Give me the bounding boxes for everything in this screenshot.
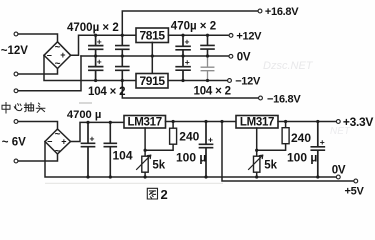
junction R1 / U3 ADJ — [144, 149, 147, 152]
potentiometer RP1 5k — [137, 155, 151, 177]
junction C7-C8 / 0V rail — [206, 54, 209, 57]
wire AC1 to bridge B1 top vertex — [19, 34, 58, 42]
terminal AC2 (upper transformer end B) — [14, 72, 18, 76]
bridge rectifier B2 — [45, 129, 71, 157]
wire AC3 to bridge B2 top vertex — [19, 122, 58, 130]
junction C5 / +12V rail — [181, 34, 184, 37]
junction RP2 / 0V rail — [255, 175, 258, 178]
junction C12 / 0V rail — [316, 175, 319, 178]
capacitor C3 104 (top) — [116, 35, 129, 56]
svg-text:+: + — [60, 50, 65, 60]
capacitor C5 470u (top) — [176, 35, 190, 56]
junction C5-C6 / 0V rail — [181, 54, 184, 57]
terminal CT (center tap) — [14, 89, 18, 93]
junction +5V tap / U3 output rail — [220, 120, 223, 123]
terminal AC3 (lower transformer end A) — [14, 120, 18, 124]
wire -12V rail — [168, 80, 226, 82]
wire LM317#2 output rail — [278, 121, 336, 123]
wire bridge B2 minus to 0V common rail — [45, 142, 336, 178]
svg-text:~: ~ — [55, 129, 61, 140]
junction C2 / -V rail — [94, 79, 97, 82]
wire bridge B2 plus to LM317 input rail — [71, 122, 125, 141]
regulator U2 7915 — [136, 74, 168, 89]
junction C9 / input rail — [86, 121, 89, 124]
junction regulators GND / 0V rail — [151, 54, 154, 57]
svg-text:470µ × 2: 470µ × 2 — [171, 21, 216, 33]
svg-text:7915: 7915 — [140, 74, 166, 88]
svg-text:Dzsc.NET: Dzsc.NET — [263, 60, 314, 72]
regulator U1 7815 — [136, 28, 168, 43]
potentiometer RP2 5k — [249, 155, 263, 177]
svg-text:NET: NET — [330, 126, 351, 137]
junction R2 / U4 output rail — [284, 120, 287, 123]
wire +12V rail — [168, 34, 228, 36]
terminal AC1 (upper transformer end A) — [14, 32, 18, 36]
wire AC4 to bridge B2 bottom vertex — [19, 154, 58, 161]
capacitor C4 104 (bottom) — [116, 56, 129, 81]
svg-text:104 × 2: 104 × 2 — [88, 86, 125, 98]
label 中心抽头 (center tap) — [2, 103, 45, 114]
svg-text:0V: 0V — [237, 52, 251, 64]
capacitor C11 100u — [200, 122, 214, 178]
svg-text:5k: 5k — [264, 160, 277, 172]
terminal 0V (lower) — [336, 175, 340, 179]
capacitor C9 4700u — [82, 122, 95, 177]
terminal AC4 (lower transformer end B) — [14, 159, 18, 163]
resistor R2 240 — [257, 122, 289, 151]
svg-text:LM317: LM317 — [240, 117, 274, 129]
svg-text:4700µ × 2: 4700µ × 2 — [67, 22, 119, 34]
svg-text:+: + — [97, 36, 102, 46]
svg-text:−: − — [47, 50, 52, 60]
svg-text:+16.8V: +16.8V — [265, 6, 299, 18]
wire LM317#1 output rail — [166, 121, 237, 123]
svg-text:0V: 0V — [332, 164, 346, 176]
junction C12 / U4 output rail — [316, 120, 319, 123]
junction C7 / +12V rail — [206, 34, 209, 37]
svg-text:+: + — [185, 37, 190, 47]
svg-text:+: + — [61, 137, 66, 147]
terminal +12V — [229, 34, 233, 38]
svg-text:+: + — [90, 134, 95, 144]
label 图2 (figure 2) — [147, 188, 157, 199]
junction C3 / +V rail (+16.8V tap) — [121, 34, 124, 37]
wire CT riser to 0V rail — [19, 56, 82, 91]
regulator U4 LM317 — [236, 116, 278, 129]
junction RP1 / 0V rail — [144, 175, 147, 178]
capacitor C12 100u — [311, 122, 325, 178]
terminal -16.8V — [259, 96, 263, 100]
svg-text:+: + — [97, 56, 102, 66]
junction C1 / +V rail — [94, 34, 97, 37]
wire LM317#1 ADJ — [144, 128, 146, 156]
svg-text:+: + — [185, 57, 190, 67]
node 0V rail — [81, 55, 228, 57]
svg-text:−12V: −12V — [235, 76, 261, 88]
terminal +3.3V — [336, 120, 340, 124]
svg-text:100 µ: 100 µ — [176, 151, 206, 165]
terminal +16.8V — [258, 9, 262, 13]
svg-text:7815: 7815 — [140, 28, 166, 42]
svg-text:4700 µ: 4700 µ — [67, 109, 101, 121]
capacitor C2 4700u (bottom left) — [89, 56, 103, 81]
terminal 0V (upper) — [229, 54, 233, 58]
resistor R1 240 — [145, 122, 177, 151]
svg-text:240: 240 — [179, 129, 199, 143]
capacitor C8 104 (bottom right) — [201, 56, 214, 81]
junction C10 / 0V rail — [109, 175, 112, 178]
capacitor C7 104 (top right) — [201, 35, 214, 56]
svg-text:104 × 2: 104 × 2 — [194, 86, 231, 98]
svg-text:100 µ: 100 µ — [287, 151, 317, 165]
svg-text:−: − — [47, 137, 52, 147]
scan artifacts — [45, 60, 351, 184]
junction C11 / 0V rail — [204, 175, 207, 178]
junction R2 / U4 ADJ — [255, 149, 258, 152]
svg-text:240: 240 — [291, 131, 311, 145]
junction C1-C2 / 0V rail — [94, 54, 97, 57]
junction C6 / -12V rail — [181, 79, 184, 82]
svg-text:+12V: +12V — [236, 30, 262, 42]
terminal -12V — [228, 79, 232, 83]
wire AC2 to bridge B1 bottom vertex — [19, 69, 58, 75]
capacitor C1 4700u (top left) — [89, 35, 103, 56]
wire bridge B1 plus to positive rail — [71, 35, 136, 55]
svg-text:2: 2 — [161, 187, 168, 202]
junction R1 / U3 output rail — [172, 120, 175, 123]
junction C10 / input rail — [109, 121, 112, 124]
svg-text:+: + — [320, 137, 325, 147]
wire -16.8V branch — [122, 81, 258, 99]
wire +16.8V branch — [122, 11, 257, 35]
svg-text:−16.8V: −16.8V — [267, 93, 301, 105]
svg-text:+5V: +5V — [345, 186, 365, 198]
terminal +5V — [354, 179, 358, 183]
svg-text:+: + — [208, 135, 213, 145]
svg-text:LM317: LM317 — [128, 117, 162, 129]
wire LM317#2 ADJ — [256, 128, 258, 156]
junction C8 / -12V rail — [206, 79, 209, 82]
capacitor C6 470u (bottom) — [176, 56, 190, 81]
bridge rectifier B1 — [44, 42, 71, 70]
junction C3-C4 / 0V rail — [121, 54, 124, 57]
capacitor C10 104 (lower) — [104, 122, 116, 177]
regulator U3 LM317 — [124, 116, 166, 129]
junction C9 / 0V rail — [86, 175, 89, 178]
wire +5V branch — [222, 122, 353, 182]
svg-text:5k: 5k — [152, 159, 165, 171]
wire 7815 ground link — [151, 42, 153, 73]
svg-text:104: 104 — [113, 149, 133, 163]
junction C4 / -V rail (-16.8V tap) — [121, 79, 124, 82]
wire bridge B1 minus to negative rail — [44, 55, 136, 80]
svg-text:~12V: ~12V — [1, 45, 29, 57]
junction C11 / U3 output rail — [204, 120, 207, 123]
svg-text:~ 6V: ~ 6V — [2, 136, 26, 148]
